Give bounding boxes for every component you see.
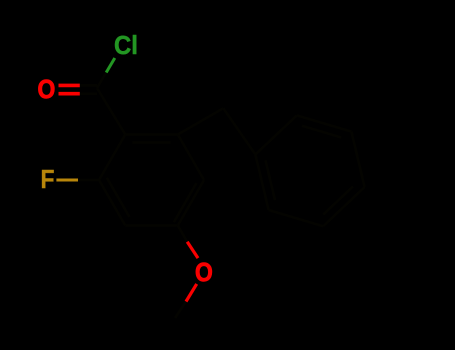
svg-text:Cl: Cl — [114, 31, 138, 60]
wire ring B edge NE-E — [351, 132, 364, 188]
wire ring A inner double bond top — [133, 141, 171, 144]
carbonyl C=O double bond oxygen halves (red) — [59, 85, 80, 93]
svg-text:F: F — [41, 166, 55, 195]
wire bond ring NW to carbonyl C — [97, 88, 125, 135]
wire ring B edge E-S — [323, 187, 364, 226]
wire bond O-CH3 methyl half — [175, 302, 186, 319]
wire ring B edge S-SW — [269, 210, 324, 226]
OMe O-CH3 bond oxygen half (red) — [186, 284, 197, 302]
benzene ring A (left, carbon skeleton) — [78, 73, 365, 319]
wire bond SE to OMe O carbon half — [178, 226, 187, 242]
OMe C-O bond oxygen half (red) — [187, 242, 198, 258]
wire C=O double bond carbon halves — [80, 85, 97, 93]
wire ring A edge SW-W — [99, 180, 125, 226]
wire ring B inner double bond N-NE — [302, 126, 341, 138]
wire ring A edge NW-NE (top) — [125, 133, 178, 136]
wire ring A edge E-SE — [178, 180, 204, 226]
wire bond carbonyl C to Cl carbon half — [97, 73, 106, 89]
wire chain bond CH2 apex to phenyl ipso — [223, 108, 255, 154]
wire ring B edge NW-N — [255, 115, 296, 154]
svg-text:O: O — [195, 259, 213, 288]
wire chain bond ring NE to CH2 apex — [178, 108, 224, 134]
C-F bond fluorine half — [56, 179, 78, 182]
wire ring A inner double bond E-SE — [174, 183, 197, 222]
wire ring B edge SW-NW — [255, 155, 268, 211]
wire ring A edge SE-SW (bottom) — [125, 224, 178, 227]
wire C-F bond carbon half — [78, 179, 99, 182]
C-Cl bond chlorine half — [106, 58, 115, 73]
wire ring B edge N-NE — [297, 115, 352, 131]
wire ring B inner double bond E-S — [323, 186, 353, 214]
wire ring A inner double bond SW-W — [107, 178, 130, 217]
svg-text:O: O — [38, 76, 56, 105]
wire ring A edge NE-E — [178, 135, 204, 181]
wire ring A edge W-NW — [99, 135, 125, 181]
wire ring B inner double bond SW-NW — [266, 160, 276, 200]
